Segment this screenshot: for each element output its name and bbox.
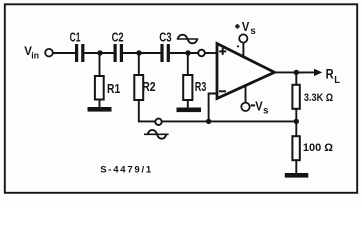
resistor R2 (134, 75, 155, 100)
svg-text:L: L (334, 75, 340, 86)
wire node A down to R1 (99, 53, 101, 76)
op-amp - input marker (219, 90, 226, 92)
label Vin (24, 46, 39, 60)
node A junction (C1/C2/R1) (97, 50, 102, 55)
wire input terminal to C1 (53, 52, 75, 54)
AC signal symbol at feedback terminal (144, 130, 169, 139)
resistor R3 (183, 75, 206, 100)
svg-text:C2: C2 (112, 31, 124, 45)
svg-text:s: s (250, 26, 256, 37)
wire junction F up to - input (209, 94, 218, 122)
wire node D down to 3.3K resistor (295, 72, 297, 85)
svg-text:C1: C1 (70, 31, 81, 45)
label RL (326, 67, 340, 86)
input terminal (open circle) (45, 49, 53, 57)
node B junction (C2/C3/R2) (136, 50, 141, 55)
svg-text:R1: R1 (107, 82, 120, 96)
ground under 100 ohm (285, 160, 309, 178)
wire C3 to test terminal (170, 52, 198, 54)
capacitor C3 (159, 31, 171, 63)
wire terminal to op-amp + input (205, 52, 218, 54)
svg-text:V: V (255, 99, 263, 113)
test terminal (open circle) before + input (198, 50, 205, 57)
junction F dot (206, 119, 211, 124)
svg-text:100 Ω: 100 Ω (303, 142, 333, 154)
svg-text:3.3K Ω: 3.3K Ω (304, 92, 333, 104)
resistor 100 ohm (292, 136, 333, 160)
arrow to load RL (296, 69, 322, 76)
node C junction (C3/R3) (185, 50, 190, 55)
node E junction (divider/feedback) (294, 119, 299, 124)
wire 3.3K to 100 ohm (295, 109, 297, 137)
wire node B down to R2 (138, 53, 140, 76)
wire node C down to R3 (187, 53, 189, 76)
svg-text:V: V (242, 20, 250, 34)
wire C1 to C2 (84, 52, 114, 54)
svg-text:C3: C3 (159, 31, 171, 45)
output node D junction (294, 70, 299, 75)
ground under R1 (88, 100, 112, 112)
wire R2 bottom to feedback junction (139, 100, 209, 121)
feedback wire node E to junction F (209, 120, 297, 122)
svg-text:in: in (31, 50, 39, 60)
+Vs supply: wire, terminal, label (235, 20, 256, 58)
ground under R3 (177, 100, 202, 112)
svg-text:R3: R3 (195, 80, 206, 94)
svg-text:R2: R2 (142, 80, 155, 94)
AC signal symbol at op-amp input (177, 35, 198, 44)
-Vs supply: wire, terminal, label (241, 85, 269, 116)
capacitor C2 (112, 31, 124, 63)
feedback test terminal (open circle) (155, 119, 161, 125)
wire C2 to C3 (123, 52, 161, 54)
resistor 3.3K ohm (292, 85, 333, 109)
output wire from op-amp (273, 71, 305, 73)
resistor R1 (95, 76, 120, 100)
op-amp U1 triangle (217, 44, 275, 99)
op-amp + input marker (219, 48, 226, 55)
capacitor C1 (70, 31, 85, 63)
svg-text:s: s (263, 106, 269, 117)
svg-text:R: R (326, 67, 334, 82)
